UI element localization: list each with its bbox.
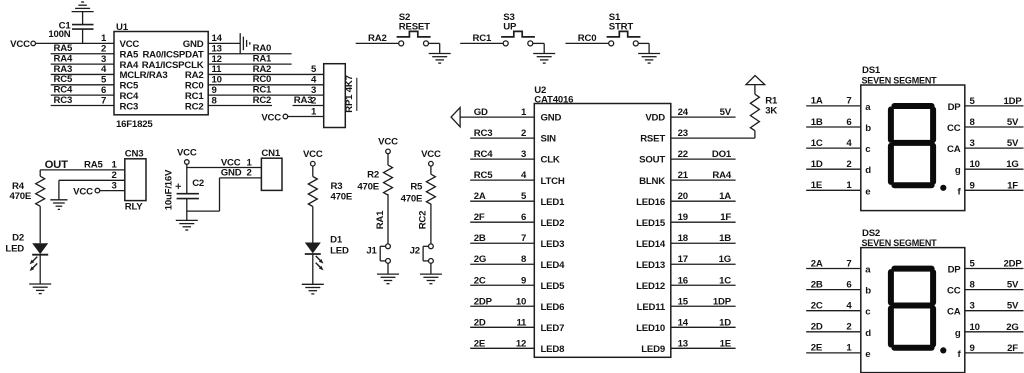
power VCC (R5) (429, 161, 434, 166)
svg-text:2: 2 (101, 44, 106, 55)
net 2F wire from DS2 pin 9 (965, 352, 1024, 354)
net 1F wire from DS1 pin 9 (965, 189, 1024, 191)
net RC3 wire to U1 pin 7 (51, 105, 114, 107)
LED D2 (32, 243, 48, 254)
net 1F wire from U2 pin 19 (671, 221, 736, 223)
svg-text:12: 12 (516, 338, 526, 349)
net 1C wire from U2 pin 16 (671, 284, 736, 286)
svg-text:e: e (865, 186, 870, 197)
svg-text:1A: 1A (719, 191, 731, 202)
svg-text:RC3: RC3 (474, 128, 493, 139)
net 5V wire from DS2 pin 8 (965, 289, 1024, 291)
svg-text:VCC: VCC (10, 39, 30, 50)
svg-text:5V: 5V (1007, 138, 1019, 149)
svg-text:4: 4 (846, 301, 852, 312)
svg-text:1DP: 1DP (713, 296, 732, 307)
net RA0 wire (U1 pin 13) (208, 53, 291, 55)
net RC0 wire to S1 (566, 42, 609, 44)
svg-text:5: 5 (970, 96, 976, 107)
svg-text:D2: D2 (12, 233, 24, 244)
svg-text:CA: CA (947, 307, 961, 318)
svg-text:J1: J1 (366, 245, 377, 256)
net RA2 wire to S2 (356, 42, 399, 44)
net RA5 wire to U1 pin 2 (51, 53, 114, 55)
svg-text:5V: 5V (720, 107, 732, 118)
svg-text:CC: CC (947, 123, 961, 134)
resistor R5 470E (426, 174, 435, 204)
net 5V wire from DS2 pin 3 (965, 310, 1024, 312)
LED D1 (305, 243, 321, 254)
svg-text:LED: LED (5, 243, 24, 254)
wire J1 to ground (387, 263, 389, 274)
svg-text:6: 6 (846, 117, 851, 128)
svg-text:2C: 2C (811, 301, 823, 312)
net 2B wire to U2 pin 7 (470, 242, 534, 244)
net 5V wire from DS1 pin 8 (965, 126, 1024, 128)
svg-text:10uF/16V: 10uF/16V (163, 169, 174, 210)
net GD wire to U2 pin 1 (460, 116, 534, 118)
svg-text:3: 3 (970, 301, 975, 312)
svg-text:2DP: 2DP (1003, 259, 1022, 270)
svg-text:3: 3 (112, 180, 117, 191)
svg-text:CN1: CN1 (261, 148, 280, 159)
svg-text:9: 9 (970, 180, 975, 191)
svg-text:LED8: LED8 (541, 344, 566, 355)
svg-text:GD: GD (474, 107, 488, 118)
svg-text:g: g (955, 328, 961, 339)
svg-text:LED15: LED15 (636, 218, 666, 229)
svg-text:RA2: RA2 (368, 33, 387, 44)
svg-text:2DP: 2DP (474, 296, 493, 307)
svg-text:RA5: RA5 (84, 159, 103, 170)
svg-text:1E: 1E (720, 338, 732, 349)
wire J2 to ground (430, 263, 432, 274)
ground (CN3 pin 2) (50, 199, 67, 201)
svg-text:RC2: RC2 (185, 101, 204, 112)
net 1D wire to DS1 pin 2 (806, 168, 861, 170)
net 2E wire to DS2 pin 1 (806, 352, 861, 354)
ground (C2) (176, 219, 198, 221)
svg-text:1: 1 (846, 343, 852, 354)
svg-text:470E: 470E (10, 191, 32, 202)
svg-text:2G: 2G (474, 254, 486, 265)
net 2DP wire to U2 pin 10 (470, 305, 534, 307)
svg-text:b: b (865, 123, 871, 134)
svg-text:7: 7 (521, 233, 526, 244)
net RC1 wire U1 pin 9 to RP1 pin 3 (208, 94, 324, 96)
net 2F wire to U2 pin 6 (470, 221, 534, 223)
net 2G wire from DS2 pin 10 (965, 331, 1024, 333)
svg-text:LED4: LED4 (541, 260, 566, 271)
svg-text:4: 4 (311, 75, 317, 86)
net RC2 wire R5 to J2 (430, 204, 432, 244)
svg-text:LED11: LED11 (637, 302, 666, 313)
svg-text:1E: 1E (811, 180, 823, 191)
svg-text:5: 5 (311, 64, 317, 75)
net 1DP wire from U2 pin 15 (671, 305, 736, 307)
capacitor C1 100N (72, 24, 94, 26)
IC U1 16F1825 (114, 32, 208, 115)
svg-text:d: d (865, 328, 871, 339)
svg-text:OUT: OUT (45, 159, 69, 171)
svg-text:RC3: RC3 (120, 101, 139, 112)
net 2D wire to U2 pin 11 (470, 326, 534, 328)
ground (U1 pin 14) (239, 33, 241, 54)
svg-text:BLNK: BLNK (639, 176, 665, 187)
wire R1 to 5V arrow (754, 85, 756, 95)
net RC3 wire to U2 pin 2 (470, 137, 534, 139)
resistor R2 470E (384, 165, 393, 195)
net 2C wire to DS2 pin 4 (806, 310, 861, 312)
svg-text:DP: DP (948, 102, 962, 113)
svg-text:470E: 470E (357, 181, 379, 192)
svg-text:1F: 1F (720, 212, 731, 223)
svg-text:R5: R5 (410, 181, 423, 192)
svg-text:470E: 470E (331, 191, 353, 202)
net RC5 wire to U1 pin 5 (51, 84, 114, 86)
svg-text:1B: 1B (811, 117, 823, 128)
svg-text:RA0: RA0 (253, 43, 272, 54)
net 1A wire to DS1 pin 7 (806, 105, 861, 107)
wire VCC to R2 (387, 154, 389, 165)
svg-text:g: g (955, 165, 961, 176)
svg-text:a: a (865, 102, 871, 113)
svg-text:2B: 2B (474, 233, 486, 244)
svg-text:8: 8 (970, 280, 976, 291)
svg-text:1DP: 1DP (1003, 96, 1022, 107)
svg-text:RC0: RC0 (578, 33, 597, 44)
svg-text:MCLR/RA3: MCLR/RA3 (120, 70, 168, 81)
svg-text:1F: 1F (1007, 180, 1018, 191)
wire R4 to D2 (39, 206, 41, 243)
capacitor C2 10uF/16V (177, 193, 199, 195)
IC U2 CAT4016 (534, 104, 671, 358)
svg-text:3: 3 (970, 138, 975, 149)
svg-text:1C: 1C (811, 138, 823, 149)
wire S2 to ground (429, 42, 440, 44)
ground (D2) (29, 283, 51, 285)
resistor R4 470E (39, 170, 41, 176)
net 5V wire from U2 pin 24 (671, 116, 736, 118)
svg-text:DO1: DO1 (712, 149, 732, 160)
svg-text:1G: 1G (1006, 159, 1018, 170)
svg-text:d: d (865, 165, 871, 176)
ground (D1) (302, 283, 324, 285)
svg-text:CC: CC (947, 286, 961, 297)
net RA4 wire to U1 pin 3 (51, 63, 114, 65)
svg-text:RC4: RC4 (474, 149, 493, 160)
net 1A wire from U2 pin 20 (671, 200, 736, 202)
svg-text:RA5: RA5 (120, 50, 139, 61)
net RC1 wire to S3 (460, 42, 503, 44)
wire U1 pin 14 to ground (208, 42, 240, 44)
svg-text:13: 13 (212, 44, 222, 55)
svg-text:7: 7 (846, 96, 851, 107)
net RC0 wire U1 pin 10 to RP1 pin 4 (208, 84, 324, 86)
net RA3 wire to U1 pin 4 (51, 73, 114, 75)
ground (S2) (429, 53, 451, 55)
svg-text:VCC: VCC (73, 186, 93, 197)
svg-text:SIN: SIN (541, 134, 557, 145)
svg-text:RC5: RC5 (120, 81, 139, 92)
svg-text:2C: 2C (474, 275, 486, 286)
connector CN1 (261, 158, 282, 190)
resistor R3 470E (308, 177, 317, 207)
net 2DP wire from DS2 pin 5 (965, 268, 1024, 270)
net 2G wire to U2 pin 8 (470, 263, 534, 265)
svg-text:RA5: RA5 (54, 43, 73, 54)
svg-text:DP: DP (948, 265, 962, 276)
svg-text:13: 13 (678, 338, 688, 349)
ground (S3) (533, 53, 555, 55)
svg-text:4: 4 (101, 64, 107, 75)
svg-text:C2: C2 (192, 178, 204, 189)
seven segment digit (DS2) (888, 272, 894, 302)
net 2A wire to U2 pin 5 (470, 200, 534, 202)
svg-text:7: 7 (101, 95, 106, 106)
svg-text:f: f (958, 186, 962, 197)
svg-text:1: 1 (311, 106, 317, 117)
svg-text:LED7: LED7 (541, 323, 565, 334)
svg-text:1G: 1G (719, 254, 731, 265)
net DO1 wire from U2 pin 22 (671, 158, 736, 160)
svg-text:c: c (865, 307, 871, 318)
svg-text:2: 2 (311, 95, 316, 106)
net OUT wire (R4 to CN3 pin 1) (40, 169, 125, 171)
svg-text:LED12: LED12 (636, 281, 665, 292)
svg-text:2F: 2F (474, 212, 485, 223)
svg-text:8: 8 (521, 254, 527, 265)
svg-text:LED3: LED3 (541, 239, 565, 250)
svg-text:RP1 4K7: RP1 4K7 (344, 75, 355, 113)
wire D1 to ground (312, 254, 314, 284)
svg-text:1C: 1C (719, 275, 731, 286)
svg-text:D1: D1 (330, 235, 343, 246)
svg-text:VCC: VCC (261, 112, 281, 123)
net RA4 wire from U2 pin 21 (671, 179, 736, 181)
jumper J1 (386, 244, 391, 249)
net 5V wire from DS1 pin 3 (965, 147, 1024, 149)
svg-text:RC5: RC5 (474, 170, 493, 181)
wire VCC to RP1 pin 1 (288, 116, 324, 118)
net 1B wire to DS1 pin 6 (806, 126, 861, 128)
wire CN1 pin 2 GND return (220, 177, 262, 179)
net RA2 wire U1 pin 11 to RP1 pin 5 (208, 73, 324, 75)
wire U2 pin 23 RSET to R1 (671, 137, 755, 139)
svg-text:LED10: LED10 (636, 323, 665, 334)
net 1C wire to DS1 pin 4 (806, 147, 861, 149)
svg-text:1A: 1A (811, 96, 823, 107)
svg-text:LED13: LED13 (636, 260, 665, 271)
net 1DP wire from DS1 pin 5 (965, 105, 1024, 107)
resistor network RP1 4K7 (324, 64, 346, 128)
svg-text:18: 18 (678, 233, 689, 244)
svg-text:RC0: RC0 (253, 74, 272, 85)
svg-text:LED2: LED2 (541, 218, 565, 229)
svg-text:LED6: LED6 (541, 302, 565, 313)
svg-text:1D: 1D (719, 317, 731, 328)
net 2B wire to DS2 pin 6 (806, 289, 861, 291)
wire S3 to ground (533, 42, 544, 44)
svg-text:SEVEN SEGMENT: SEVEN SEGMENT (862, 75, 938, 85)
svg-text:LED16: LED16 (636, 197, 665, 208)
svg-text:2D: 2D (474, 317, 486, 328)
svg-text:3K: 3K (765, 106, 777, 117)
seven segment digit (DS1) (888, 110, 894, 140)
wire R3 to D1 (312, 207, 314, 243)
svg-text:5V: 5V (1007, 301, 1019, 312)
svg-text:2A: 2A (474, 191, 486, 202)
svg-text:5V: 5V (1007, 280, 1019, 291)
wire VCC to CN3 pin 3 (100, 190, 125, 192)
wire C2 to ground (186, 199, 188, 221)
wire VCC to CN1 pin 1 (186, 164, 188, 193)
svg-text:11: 11 (212, 64, 223, 75)
svg-text:2F: 2F (1007, 343, 1018, 354)
net 1G wire from DS1 pin 10 (965, 168, 1024, 170)
svg-text:1: 1 (112, 160, 118, 171)
svg-text:RA4: RA4 (712, 170, 731, 181)
svg-text:RLY: RLY (125, 201, 144, 212)
svg-text:CN3: CN3 (125, 148, 144, 159)
net 1B wire from U2 pin 18 (671, 242, 736, 244)
svg-text:RA1: RA1 (375, 210, 386, 229)
svg-text:SEVEN SEGMENT: SEVEN SEGMENT (862, 238, 938, 248)
svg-text:RC2: RC2 (253, 95, 272, 106)
svg-text:8: 8 (970, 117, 976, 128)
svg-text:RA0/ICSPDAT: RA0/ICSPDAT (142, 50, 203, 61)
wire S1 to ground (638, 42, 649, 44)
ground (above C1) (72, 11, 94, 13)
port GD arrow (451, 108, 460, 127)
svg-text:1: 1 (846, 180, 852, 191)
power VCC (R2) (386, 149, 391, 154)
display DS2 SEVEN SEGMENT (861, 248, 965, 373)
svg-text:f: f (958, 349, 962, 360)
svg-text:4: 4 (846, 138, 852, 149)
svg-text:1B: 1B (719, 233, 731, 244)
svg-text:LED14: LED14 (636, 239, 666, 250)
svg-text:1: 1 (247, 157, 253, 168)
net 2E wire to U2 pin 12 (470, 347, 534, 349)
net 1D wire from U2 pin 14 (671, 326, 736, 328)
svg-text:5V: 5V (1007, 117, 1019, 128)
svg-text:10: 10 (970, 322, 980, 333)
net 1G wire from U2 pin 17 (671, 263, 736, 265)
svg-text:RC0: RC0 (185, 81, 204, 92)
svg-text:e: e (865, 349, 870, 360)
svg-text:RC2: RC2 (418, 211, 429, 230)
svg-text:b: b (865, 286, 871, 297)
power VCC (R3) (311, 161, 316, 166)
net 2A wire to DS2 pin 7 (806, 268, 861, 270)
svg-text:VCC: VCC (421, 149, 441, 160)
svg-text:7: 7 (846, 258, 851, 269)
svg-text:RC5: RC5 (54, 74, 73, 85)
svg-text:c: c (865, 144, 871, 155)
svg-text:23: 23 (678, 128, 688, 139)
svg-text:1D: 1D (811, 159, 823, 170)
svg-text:RA2: RA2 (185, 70, 204, 81)
svg-text:2D: 2D (811, 322, 823, 333)
svg-text:VCC: VCC (303, 149, 323, 160)
net RC5 wire to U2 pin 4 (470, 179, 534, 181)
net RA3 wire to RP1 pin 2 (293, 105, 324, 107)
svg-text:3: 3 (521, 149, 526, 160)
power VCC (C2/CN1) (185, 160, 190, 165)
svg-text:LED1: LED1 (541, 197, 566, 208)
svg-text:VCC: VCC (221, 157, 241, 168)
svg-text:6: 6 (846, 279, 851, 290)
wire VCC to U1 pin 1 (36, 42, 115, 44)
svg-text:2G: 2G (1006, 322, 1018, 333)
svg-text:2E: 2E (811, 343, 823, 354)
svg-text:LED5: LED5 (541, 281, 566, 292)
svg-text:2: 2 (521, 128, 526, 139)
svg-text:2: 2 (846, 159, 851, 170)
net RC4 wire to U1 pin 6 (51, 94, 114, 96)
svg-text:5: 5 (970, 259, 976, 270)
svg-text:R2: R2 (367, 170, 379, 181)
ground (J1) (377, 273, 399, 275)
svg-text:2E: 2E (474, 338, 486, 349)
svg-text:a: a (865, 265, 871, 276)
svg-text:9: 9 (970, 343, 975, 354)
svg-text:5: 5 (101, 75, 107, 86)
net RA1 wire (U1 pin 12) (208, 63, 291, 65)
wire D2 to ground (39, 255, 41, 284)
svg-text:2A: 2A (811, 258, 823, 269)
svg-text:RA1: RA1 (253, 54, 272, 65)
net 2C wire to U2 pin 9 (470, 284, 534, 286)
net 2D wire to DS2 pin 2 (806, 331, 861, 333)
svg-text:2B: 2B (811, 279, 823, 290)
jumper J2 (429, 244, 434, 249)
svg-text:VDD: VDD (645, 113, 665, 124)
net RC2 wire (U1 pin 8) (208, 105, 272, 107)
power 5V arrow (R1) (746, 76, 765, 85)
svg-text:10: 10 (970, 159, 980, 170)
ground (S1) (638, 53, 660, 55)
wire C1 ground stem (82, 12, 84, 25)
svg-text:RC1: RC1 (473, 33, 492, 44)
svg-text:2: 2 (846, 322, 851, 333)
connector CN3 RLY (125, 159, 146, 201)
svg-text:16F1825: 16F1825 (116, 119, 153, 130)
svg-text:LED9: LED9 (641, 344, 665, 355)
resistor R1 3K (750, 94, 759, 131)
svg-text:CLK: CLK (541, 155, 560, 166)
svg-text:GND: GND (221, 168, 242, 179)
svg-text:LTCH: LTCH (541, 176, 565, 187)
svg-text:SOUT: SOUT (639, 155, 665, 166)
svg-text:22: 22 (678, 149, 688, 160)
svg-text:RA4: RA4 (54, 54, 73, 65)
wire VCC to R5 (430, 166, 432, 174)
svg-text:VCC: VCC (378, 137, 398, 148)
net 1E wire from U2 pin 13 (671, 347, 736, 349)
svg-text:17: 17 (678, 254, 688, 265)
svg-text:VCC: VCC (177, 147, 197, 158)
display DS1 SEVEN SEGMENT (861, 85, 965, 211)
svg-text:J2: J2 (410, 245, 420, 256)
svg-text:RA3: RA3 (294, 95, 313, 106)
net RA1 wire R2 to J1 (387, 194, 389, 244)
svg-text:U1: U1 (116, 22, 129, 33)
svg-text:RSET: RSET (640, 134, 665, 145)
wire C1 to pin1 net (82, 29, 84, 43)
ground (J2) (420, 273, 442, 275)
